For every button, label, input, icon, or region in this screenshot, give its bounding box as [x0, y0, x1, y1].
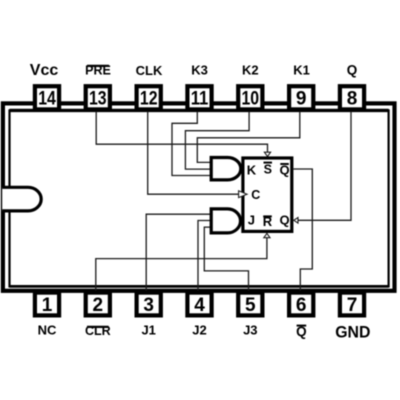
pin 9 box: [289, 86, 313, 109]
svg-text:3: 3: [143, 295, 154, 316]
IC body inner outline: [10, 110, 389, 286]
pin 2 box: [86, 293, 110, 316]
svg-text:K2: K2: [242, 63, 259, 78]
clock input triangle: [239, 191, 247, 198]
svg-text:13: 13: [89, 89, 107, 110]
pin 5 box: [238, 293, 262, 316]
svg-text:8: 8: [347, 89, 358, 110]
flip-flop U1 box: [243, 158, 292, 231]
pin 12 box: [137, 86, 161, 109]
svg-text:11: 11: [191, 89, 209, 110]
wire Qbar: FF to pin 6: [293, 169, 312, 292]
wire J2: pin 4 to bottom AND input 2: [198, 221, 212, 293]
pin 7 box: [340, 293, 364, 316]
svg-text:9: 9: [296, 89, 307, 110]
svg-text:K3: K3: [191, 63, 208, 78]
wire J1: pin 3 to bottom AND input 1: [146, 214, 212, 292]
svg-text:1: 1: [42, 295, 53, 316]
pin 11 box: [187, 86, 211, 109]
svg-text:Q: Q: [279, 213, 289, 228]
wire CLK: pin 12 to C input: [148, 111, 239, 194]
S input arrowhead: [264, 152, 270, 156]
pin 3 box: [137, 293, 161, 316]
svg-text:7: 7: [347, 295, 358, 316]
pin 1 box: [35, 293, 59, 316]
svg-text:C: C: [251, 188, 260, 202]
pin 13 box: [86, 86, 110, 109]
svg-text:2: 2: [93, 295, 104, 316]
AND gate bottom (J inputs): [211, 209, 240, 233]
pin 4 box: [187, 293, 211, 316]
svg-text:CLK: CLK: [136, 63, 163, 78]
svg-text:Q: Q: [347, 63, 358, 78]
AND gate top (K inputs): [211, 158, 241, 180]
R input arrowhead: [264, 233, 270, 237]
pin 14 box: [35, 86, 59, 109]
Q output arrowhead: [294, 218, 298, 224]
svg-text:12: 12: [140, 89, 158, 110]
svg-text:NC: NC: [38, 323, 57, 338]
svg-text:K: K: [247, 163, 257, 178]
svg-text:K1: K1: [293, 63, 310, 78]
wire K1: pin 9 to top AND input 1: [197, 111, 299, 162]
pin 8 box: [340, 86, 364, 109]
svg-text:5: 5: [245, 295, 256, 316]
svg-text:4: 4: [194, 295, 205, 316]
svg-text:14: 14: [38, 89, 56, 110]
notch (pin-1 index): [2, 187, 41, 211]
wire J3: pin 5 to bottom AND input 3: [204, 227, 248, 292]
svg-text:S: S: [264, 163, 272, 177]
svg-text:J1: J1: [141, 323, 155, 338]
pin 6 box: [289, 293, 313, 316]
wire Q: pin 8 to Q output: [298, 111, 351, 220]
wire K2: pin 10 to top AND input 2: [185, 111, 249, 169]
svg-text:10: 10: [242, 89, 260, 110]
svg-text:6: 6: [296, 295, 307, 316]
svg-text:Vcc: Vcc: [30, 62, 59, 79]
svg-text:GND: GND: [335, 323, 370, 342]
wire CLR: pin 2 to R input: [96, 238, 267, 292]
pin 10 box: [238, 86, 262, 109]
svg-text:J2: J2: [192, 323, 206, 338]
svg-text:J3: J3: [243, 323, 257, 338]
wire K3: pin 11 to top AND input 3: [172, 111, 212, 176]
IC body outer outline: [3, 103, 395, 290]
svg-text:J: J: [248, 213, 255, 228]
wire PRE: pin 13 to S input: [96, 111, 267, 153]
